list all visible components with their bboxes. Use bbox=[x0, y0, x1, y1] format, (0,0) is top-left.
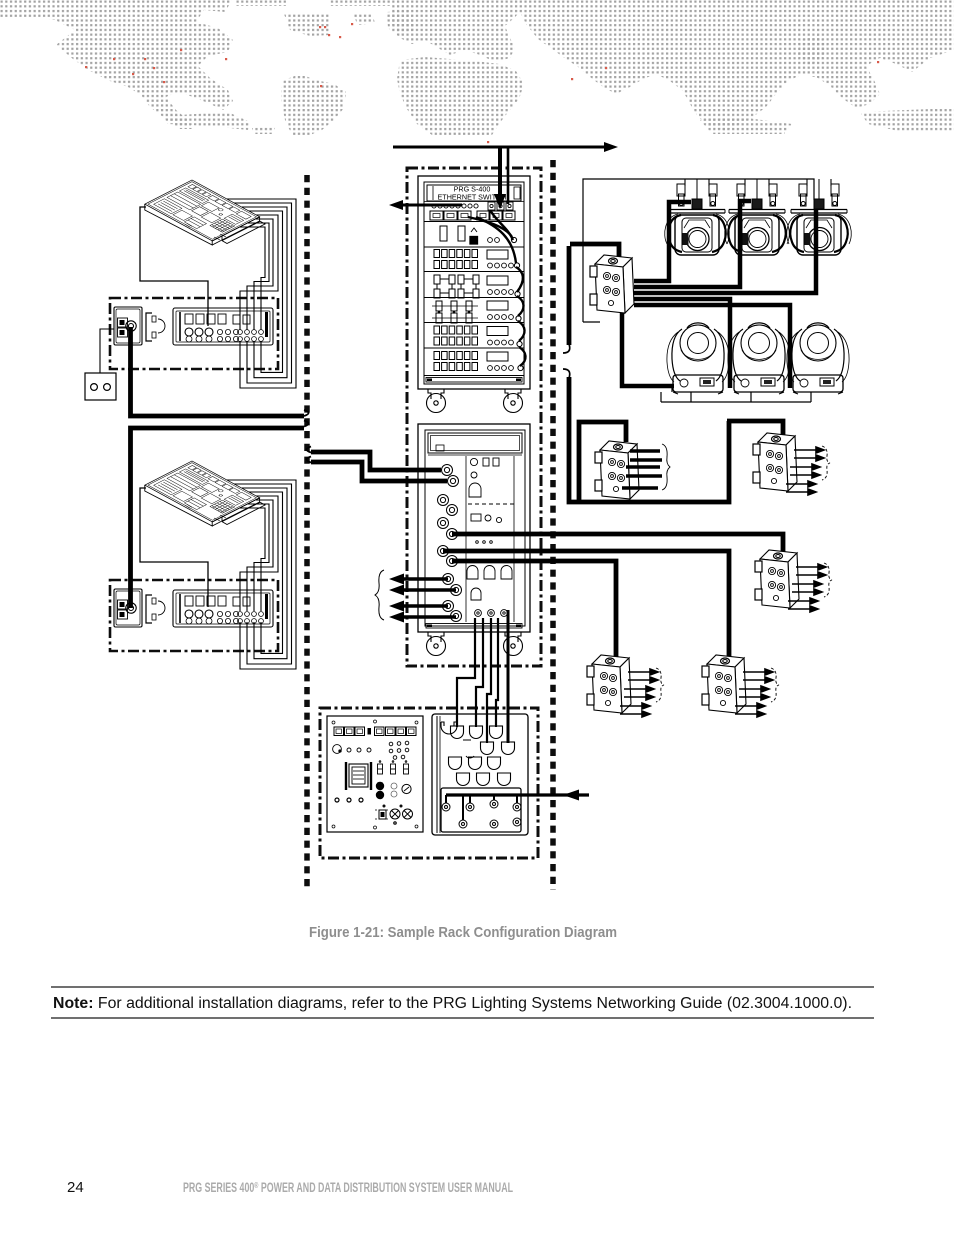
svg-text:ETHERNET SWITCH: ETHERNET SWITCH bbox=[438, 193, 507, 202]
svg-text:PRG SERIES 400® POWER AND DATA: PRG SERIES 400® POWER AND DATA DISTRIBUT… bbox=[183, 1180, 513, 1195]
svg-text:Note: For additional installa: Note: For additional installation diagra… bbox=[53, 995, 852, 1012]
svg-text:Figure 1-21: Sample Rack Conf: Figure 1-21: Sample Rack Configuration D… bbox=[309, 924, 617, 941]
svg-text:24: 24 bbox=[67, 1179, 84, 1196]
